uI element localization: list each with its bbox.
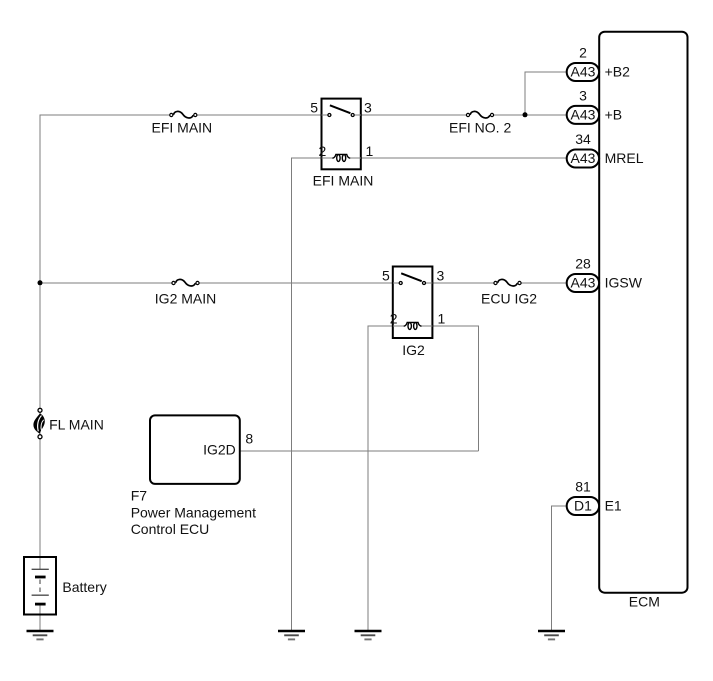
svg-text:2: 2 <box>579 45 587 61</box>
connector A43 pin 28 (IGSW) <box>567 274 599 292</box>
relay EFI MAIN <box>322 99 361 170</box>
node junction at left rail IG2 MAIN branch <box>38 280 43 285</box>
svg-text:A43: A43 <box>571 150 596 166</box>
ground (E1) <box>538 631 565 639</box>
svg-text:2: 2 <box>319 143 327 159</box>
svg-text:5: 5 <box>382 268 390 284</box>
connector A43 pin 2 (+B2) <box>567 63 599 81</box>
svg-text:Power Management: Power Management <box>131 504 256 520</box>
F7 Power Management Control ECU box <box>150 415 240 484</box>
svg-text:E1: E1 <box>605 498 622 514</box>
fusible link FL MAIN <box>33 408 44 438</box>
svg-text:Battery: Battery <box>62 579 106 595</box>
svg-text:+B2: +B2 <box>605 64 631 80</box>
svg-text:EFI MAIN: EFI MAIN <box>152 120 213 136</box>
svg-text:2: 2 <box>390 311 398 327</box>
wire IG2 relay pin 3 to IGSW <box>432 282 570 284</box>
svg-text:MREL: MREL <box>605 150 644 166</box>
svg-text:FL MAIN: FL MAIN <box>49 417 104 433</box>
wire top feed to EFI MAIN relay pin 5 <box>40 114 322 116</box>
svg-text:3: 3 <box>364 100 372 116</box>
svg-text:EFI NO. 2: EFI NO. 2 <box>449 120 511 136</box>
svg-text:8: 8 <box>245 431 253 447</box>
connector A43 pin 34 (MREL) <box>567 150 599 168</box>
svg-text:3: 3 <box>579 88 587 104</box>
svg-text:F7: F7 <box>131 488 148 504</box>
svg-text:81: 81 <box>575 479 591 495</box>
wire EFI MAIN relay pin 3 to +B <box>361 114 570 116</box>
ground (battery) <box>27 631 54 639</box>
svg-text:ECU IG2: ECU IG2 <box>481 291 537 307</box>
svg-text:A43: A43 <box>571 64 596 80</box>
ground (EFI MAIN relay) <box>278 631 305 639</box>
svg-text:D1: D1 <box>574 498 592 514</box>
wire IG2D output from F7 <box>240 450 479 452</box>
fuse ECU IG2 <box>494 279 521 286</box>
svg-text:1: 1 <box>438 311 446 327</box>
wire EFI MAIN relay pin 1 to MREL <box>361 157 570 159</box>
svg-text:IG2D: IG2D <box>203 442 236 458</box>
fuse IG2 MAIN <box>172 279 199 286</box>
svg-text:IG2: IG2 <box>402 342 425 358</box>
wire E1 to ground <box>552 506 571 631</box>
relay IG2 <box>393 267 433 339</box>
svg-text:1: 1 <box>366 143 374 159</box>
svg-text:A43: A43 <box>571 107 596 123</box>
fuse EFI NO. 2 <box>466 111 493 118</box>
wire IG2 MAIN feed (left rail to IG2 relay pin 5) <box>40 282 393 284</box>
svg-text:3: 3 <box>437 268 445 284</box>
node junction at +B branch <box>523 112 528 117</box>
connector D1 pin 81 (E1) <box>567 497 599 515</box>
svg-text:EFI MAIN: EFI MAIN <box>313 173 374 189</box>
svg-text:A43: A43 <box>571 275 596 291</box>
connector A43 pin 3 (+B) <box>567 106 599 124</box>
ground (IG2 relay) <box>355 631 382 639</box>
wire +B2 branch <box>525 72 570 115</box>
wire battery positive rail (left vertical) <box>39 115 41 632</box>
wire battery internal dashed cell link <box>39 580 41 593</box>
wire IG2 relay pin 1 to IG2D <box>432 326 478 451</box>
svg-text:Control ECU: Control ECU <box>131 521 210 537</box>
wire IG2 relay pin 2 to ground <box>368 326 393 631</box>
svg-text:34: 34 <box>575 131 591 147</box>
battery <box>24 557 56 615</box>
fuse EFI MAIN <box>170 111 197 118</box>
wire EFI MAIN relay pin 2 to ground <box>292 158 322 631</box>
svg-text:IGSW: IGSW <box>605 275 643 291</box>
ECM box <box>599 32 687 593</box>
svg-text:IG2 MAIN: IG2 MAIN <box>155 291 216 307</box>
svg-text:5: 5 <box>310 100 318 116</box>
svg-text:+B: +B <box>605 107 623 123</box>
svg-text:28: 28 <box>575 256 591 272</box>
svg-text:ECM: ECM <box>629 594 660 610</box>
